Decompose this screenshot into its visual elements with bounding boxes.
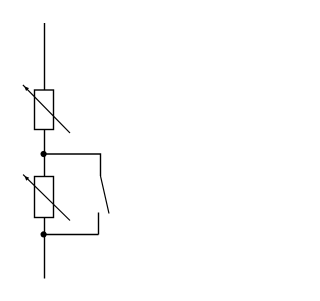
wire R2 to node B — [44, 218, 46, 235]
wire node A to switch branch — [45, 154, 101, 176]
variable resistor R2 body — [35, 177, 54, 218]
node B junction dot — [41, 231, 47, 237]
wire switch branch to node B — [45, 234, 99, 236]
switch S1 lower contact — [98, 213, 100, 235]
variable resistor R1 arrow — [23, 85, 70, 133]
switch S1 blade (open) — [101, 176, 110, 214]
wire R1 to node A — [44, 130, 46, 155]
wire node A to R2 — [44, 154, 46, 177]
variable resistor R2 arrow — [23, 175, 70, 221]
wire bottom lead — [44, 235, 46, 279]
node A junction dot — [41, 151, 47, 157]
variable resistor R1 body — [35, 90, 54, 130]
wire top lead — [44, 23, 46, 90]
